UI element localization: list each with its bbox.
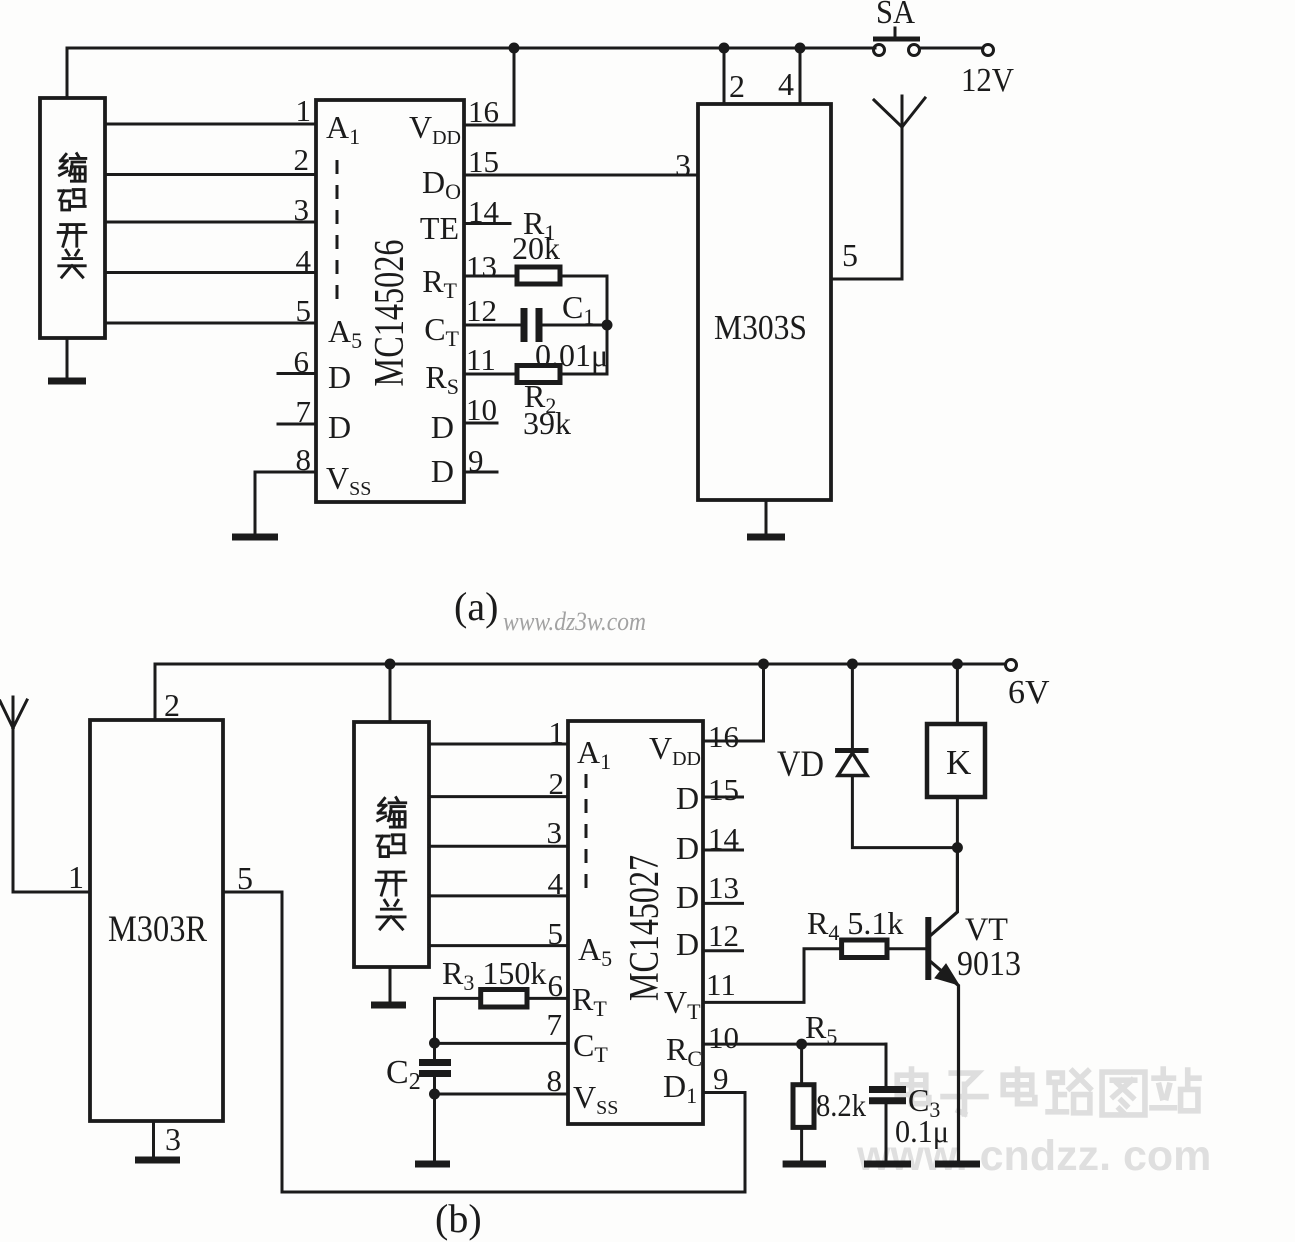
svg-text:(a): (a) (454, 584, 498, 629)
svg-text:4: 4 (548, 866, 564, 901)
svg-text:4: 4 (778, 66, 794, 102)
svg-text:A5: A5 (578, 931, 612, 971)
svg-text:C1: C1 (562, 289, 594, 329)
svg-text:9: 9 (468, 443, 484, 478)
svg-text:VD: VD (777, 744, 824, 785)
svg-text:1: 1 (296, 93, 312, 128)
svg-text:DO: DO (422, 164, 461, 204)
svg-text:RC: RC (666, 1031, 702, 1071)
svg-text:(b): (b) (435, 1196, 482, 1241)
svg-text:39k: 39k (523, 405, 571, 441)
svg-text:D: D (676, 830, 699, 866)
svg-text:VSS: VSS (573, 1079, 618, 1119)
svg-text:13: 13 (708, 870, 739, 905)
svg-text:R3 150k: R3 150k (442, 955, 546, 995)
svg-text:TE: TE (420, 210, 459, 246)
svg-text:5: 5 (548, 916, 564, 951)
svg-text:0.01μ: 0.01μ (535, 337, 608, 373)
svg-text:0.1μ: 0.1μ (895, 1113, 949, 1149)
svg-text:14: 14 (468, 194, 500, 229)
svg-text:A1: A1 (577, 734, 611, 774)
svg-text:20k: 20k (512, 230, 560, 266)
svg-text:3: 3 (165, 1121, 181, 1157)
svg-text:RT: RT (422, 263, 457, 303)
svg-text:16: 16 (708, 719, 739, 754)
svg-text:11: 11 (706, 967, 736, 1002)
svg-text:12: 12 (708, 918, 739, 953)
svg-text:MC145026: MC145026 (367, 240, 413, 387)
svg-text:D1: D1 (663, 1068, 697, 1108)
svg-text:4: 4 (296, 243, 312, 278)
svg-text:D: D (676, 879, 699, 915)
svg-text:8: 8 (296, 442, 312, 477)
svg-text:3: 3 (294, 192, 310, 227)
svg-text:12V: 12V (961, 62, 1014, 99)
svg-text:3: 3 (675, 147, 691, 183)
svg-text:15: 15 (468, 144, 499, 179)
svg-text:VDD: VDD (409, 109, 461, 149)
svg-text:2: 2 (549, 766, 565, 801)
svg-text:C2: C2 (386, 1054, 421, 1095)
svg-text:8.2k: 8.2k (816, 1087, 866, 1123)
svg-text:K: K (946, 743, 971, 782)
svg-text:6: 6 (548, 968, 564, 1003)
svg-text:D: D (431, 409, 454, 445)
svg-text:2: 2 (294, 142, 310, 177)
svg-text:VSS: VSS (326, 460, 371, 500)
svg-text:10: 10 (708, 1020, 739, 1055)
svg-text:R5: R5 (805, 1009, 837, 1049)
svg-text:2: 2 (164, 687, 180, 723)
svg-text:D: D (676, 780, 699, 816)
svg-text:D: D (676, 926, 699, 962)
svg-text:CT: CT (424, 311, 459, 351)
svg-text:M303R: M303R (108, 909, 207, 950)
svg-text:5: 5 (237, 860, 253, 896)
svg-text:16: 16 (468, 94, 499, 129)
svg-text:15: 15 (708, 772, 739, 807)
svg-text:A1: A1 (326, 109, 360, 149)
svg-text:7: 7 (296, 394, 312, 429)
svg-text:3: 3 (547, 815, 563, 850)
svg-text:VT: VT (664, 984, 701, 1024)
svg-text:RS: RS (425, 359, 459, 399)
svg-text:6: 6 (294, 344, 310, 379)
svg-text:14: 14 (708, 821, 740, 856)
svg-text:CT: CT (573, 1027, 608, 1067)
svg-text:D: D (328, 359, 351, 395)
svg-text:12: 12 (466, 293, 497, 328)
svg-text:2: 2 (729, 68, 745, 104)
svg-text:9013: 9013 (957, 944, 1021, 983)
svg-text:VT: VT (965, 912, 1008, 948)
svg-text:5: 5 (842, 237, 858, 273)
svg-text:10: 10 (466, 392, 497, 427)
svg-text:RT: RT (572, 981, 607, 1021)
svg-text:5: 5 (296, 293, 312, 328)
svg-text:13: 13 (466, 249, 497, 284)
svg-text:MC145027: MC145027 (622, 855, 668, 1001)
svg-text:D: D (431, 453, 454, 489)
svg-text:7: 7 (547, 1007, 563, 1042)
svg-text:VDD: VDD (649, 730, 701, 770)
svg-text:www.dz3w.com: www.dz3w.com (503, 607, 646, 636)
svg-text:11: 11 (466, 342, 496, 377)
svg-text:9: 9 (713, 1061, 729, 1096)
svg-text:M303S: M303S (714, 308, 807, 347)
svg-text:6V: 6V (1008, 674, 1050, 711)
svg-text:SA: SA (876, 0, 915, 31)
svg-text:D: D (328, 409, 351, 445)
svg-text:1: 1 (549, 715, 565, 750)
svg-text:R4 5.1k: R4 5.1k (807, 905, 903, 945)
svg-text:1: 1 (68, 859, 84, 895)
svg-text:A5: A5 (328, 313, 362, 353)
svg-text:8: 8 (547, 1063, 563, 1098)
